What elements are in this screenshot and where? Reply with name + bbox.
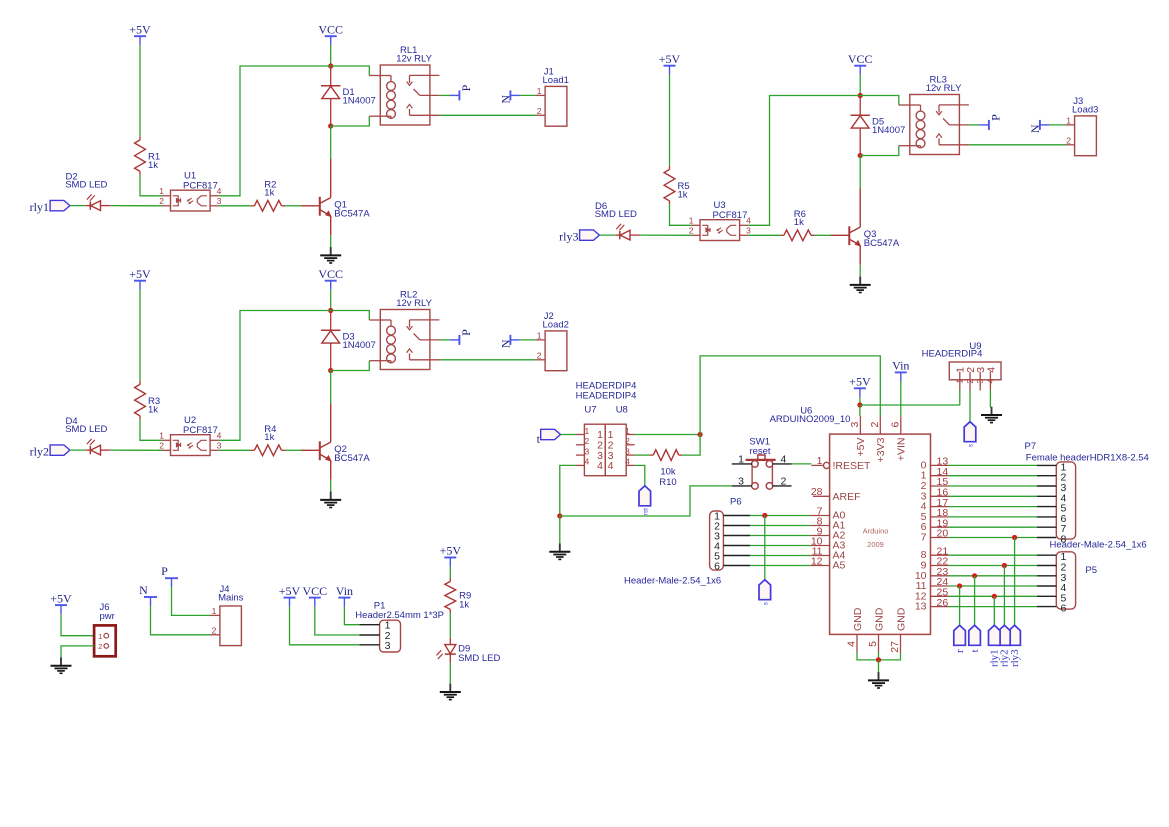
ground (51, 657, 72, 673)
svg-text:1: 1 (212, 606, 217, 616)
svg-text:2: 2 (537, 350, 542, 360)
wire (290, 607, 360, 645)
svg-text:4: 4 (846, 641, 858, 647)
junction (858, 93, 863, 98)
power +5V (279, 584, 301, 607)
svg-text:1N4007: 1N4007 (343, 340, 376, 351)
wire (219, 66, 331, 196)
svg-text:1: 1 (625, 426, 630, 436)
svg-text:2: 2 (212, 625, 217, 635)
label R1 1k (148, 152, 160, 172)
power VCC (318, 22, 343, 45)
ground (320, 492, 341, 508)
svg-text:1: 1 (537, 331, 542, 341)
transistor Q3 (831, 189, 861, 265)
svg-text:!RESET: !RESET (833, 460, 872, 472)
junction (328, 368, 333, 373)
wire (640, 234, 692, 236)
svg-text:N: N (499, 95, 513, 104)
label RL2 12v RLY (396, 290, 432, 309)
junction (957, 583, 962, 588)
net flag rly1 (30, 200, 70, 214)
wire (860, 146, 899, 156)
junction (328, 63, 333, 68)
svg-text:1k: 1k (148, 160, 158, 171)
wire (1003, 566, 1005, 626)
net flag rly3 (1009, 625, 1021, 667)
svg-text:1: 1 (159, 431, 164, 441)
wire (330, 45, 332, 66)
diode D1 (321, 66, 340, 126)
svg-text:4: 4 (781, 454, 787, 466)
svg-text:2: 2 (625, 436, 630, 446)
svg-text:+5V: +5V (855, 438, 867, 457)
power +5V (849, 375, 871, 398)
svg-text:R10: R10 (659, 477, 676, 488)
IC U6 ARDUINO2009_10 (810, 416, 948, 653)
svg-text:1: 1 (98, 632, 102, 641)
wire (750, 525, 810, 527)
resistor R1 (135, 136, 146, 175)
junction (857, 402, 862, 407)
wire (750, 545, 810, 547)
wire (878, 660, 880, 673)
svg-text:4: 4 (608, 460, 614, 472)
junction (557, 513, 562, 518)
label R5 1k (678, 181, 690, 201)
svg-text:2: 2 (689, 226, 694, 236)
wire (969, 144, 1066, 146)
junction (762, 513, 767, 518)
svg-text:Vin: Vin (336, 584, 353, 598)
svg-text:BC547A: BC547A (334, 208, 370, 219)
wire (949, 475, 1038, 477)
net flag N (1028, 120, 1049, 133)
label P7 Female headerHDR1X8-2.54 (1025, 441, 1149, 464)
wire (949, 516, 1038, 518)
junction (992, 594, 997, 599)
label RL3 12v RLY (926, 75, 962, 94)
resistor R5 (664, 166, 675, 205)
junction (328, 308, 333, 313)
svg-text:Load3: Load3 (1072, 105, 1098, 116)
optocoupler U1 (159, 186, 221, 211)
wire (859, 265, 861, 278)
junction (1002, 563, 1007, 568)
resistor R2 (251, 200, 285, 211)
net flag P (450, 329, 473, 345)
wire (560, 465, 576, 516)
label P1 Header2.54mm 1*3P (355, 601, 444, 621)
label R9 1k (459, 590, 471, 610)
svg-text:1: 1 (537, 86, 542, 96)
ground (549, 544, 570, 560)
svg-text:Arduino: Arduino (863, 527, 889, 536)
wire (330, 371, 332, 404)
svg-text:GND: GND (873, 607, 885, 631)
wire (449, 567, 451, 579)
wire (439, 94, 450, 96)
svg-text:3: 3 (849, 422, 861, 428)
wire (949, 506, 1038, 508)
svg-text:+3V3: +3V3 (875, 437, 887, 462)
diode D3 (321, 311, 340, 371)
label D6 SMD LED (595, 201, 637, 220)
wire (331, 311, 370, 321)
label Q1 BC547A (334, 200, 370, 220)
wire (860, 404, 960, 406)
svg-text:2: 2 (781, 476, 787, 488)
label RL1 12v RLY (396, 45, 432, 64)
svg-text:P: P (459, 329, 473, 336)
label U7 U8 HEADERDIP4 (576, 381, 637, 416)
connector J4 (210, 606, 241, 646)
wire (561, 434, 576, 436)
svg-text:Vin: Vin (892, 359, 909, 373)
header U7 (576, 424, 605, 476)
svg-text:reset: reset (749, 446, 770, 457)
svg-text:+5V: +5V (659, 52, 681, 66)
wire (330, 290, 332, 311)
svg-text:3: 3 (217, 441, 222, 451)
ground (981, 407, 1002, 423)
label R2 1k (264, 180, 276, 199)
net flag rly3 (559, 230, 599, 244)
svg-text:3: 3 (217, 196, 222, 206)
wire (70, 205, 86, 207)
svg-text:12v RLY: 12v RLY (396, 298, 432, 309)
wire (748, 96, 860, 226)
power +5V (659, 52, 681, 75)
svg-text:Load2: Load2 (543, 320, 569, 331)
net flag N (499, 335, 520, 348)
resistor R6 (780, 230, 814, 241)
svg-text:4: 4 (985, 367, 997, 373)
wire (949, 585, 1038, 587)
wire (949, 537, 1038, 539)
label D1 1N4007 (343, 87, 376, 107)
svg-text:3: 3 (385, 640, 391, 652)
wire (285, 449, 301, 451)
net flag P (161, 564, 178, 587)
svg-text:HEADERDIP4: HEADERDIP4 (922, 348, 983, 359)
wire (331, 66, 370, 76)
wire (815, 234, 831, 236)
svg-text:SMD LED: SMD LED (65, 180, 107, 191)
connector P1 (359, 620, 400, 652)
wire (949, 495, 1038, 497)
ground (868, 672, 889, 688)
svg-text:AREF: AREF (833, 491, 861, 503)
wire (449, 613, 451, 638)
resistor R10 (650, 450, 683, 461)
wire (139, 45, 141, 136)
net flag t (537, 429, 561, 446)
wire (949, 595, 1038, 597)
power VCC (848, 52, 873, 75)
svg-text:rly1: rly1 (30, 200, 49, 214)
svg-text:SMD LED: SMD LED (65, 424, 107, 435)
label J4 Mains (218, 584, 244, 604)
wire (969, 124, 980, 126)
svg-text:1: 1 (1066, 116, 1071, 126)
wire (949, 565, 1038, 567)
svg-text:1N4007: 1N4007 (872, 125, 905, 136)
svg-text:SMD LED: SMD LED (595, 209, 637, 220)
LED D4 (86, 439, 111, 455)
label Q3 BC547A (864, 229, 900, 249)
wire (439, 359, 536, 361)
power VCC (302, 584, 327, 607)
svg-text:GND: GND (895, 607, 907, 631)
junction (876, 657, 881, 662)
svg-text:P7: P7 (1025, 441, 1037, 452)
label J2 Load2 (543, 311, 569, 331)
svg-text:2009: 2009 (867, 540, 884, 549)
label D5 1N4007 (872, 117, 905, 137)
svg-text:4: 4 (625, 457, 630, 467)
svg-text:2: 2 (965, 379, 975, 384)
wire (344, 607, 359, 625)
connector J1 (536, 86, 567, 126)
svg-text:26: 26 (937, 597, 949, 609)
svg-text:5: 5 (867, 641, 879, 647)
label SW1 reset (749, 436, 771, 457)
svg-text:12: 12 (811, 556, 823, 568)
svg-text:2: 2 (585, 436, 590, 446)
wire (151, 606, 211, 635)
svg-text:2: 2 (159, 196, 164, 206)
label D9 SMD LED (458, 644, 500, 664)
svg-text:3: 3 (975, 379, 985, 384)
svg-text:pwr: pwr (100, 611, 115, 622)
svg-text:rly2: rly2 (30, 445, 49, 459)
header U8 (605, 424, 634, 476)
svg-text:P: P (161, 564, 168, 578)
wire (520, 339, 536, 341)
svg-text:A5: A5 (833, 559, 846, 571)
svg-text:1k: 1k (264, 432, 274, 443)
label D2 SMD LED (65, 172, 107, 191)
svg-text:BC547A: BC547A (864, 238, 900, 249)
svg-text:6: 6 (714, 561, 720, 573)
wire (110, 449, 162, 451)
svg-text:GND: GND (852, 607, 864, 631)
wire (219, 311, 331, 441)
svg-text:4: 4 (985, 379, 995, 384)
wire (682, 435, 700, 456)
ground (440, 684, 461, 700)
svg-text:Header-Male-2.54_1x6: Header-Male-2.54_1x6 (1050, 540, 1147, 551)
junction (698, 432, 703, 437)
svg-text:4: 4 (585, 457, 590, 467)
wire (61, 614, 94, 636)
wire (560, 486, 732, 516)
svg-text:1k: 1k (459, 600, 469, 611)
wire (70, 449, 86, 451)
wire (635, 454, 650, 456)
relay RL2 (369, 310, 439, 370)
svg-text:3: 3 (625, 446, 630, 456)
wire (330, 235, 332, 248)
wire (878, 653, 880, 660)
svg-text:rst: rst (642, 508, 649, 515)
wire (140, 175, 162, 196)
svg-text:2: 2 (537, 106, 542, 116)
svg-text:ARDUINO2009_10: ARDUINO2009_10 (770, 414, 851, 425)
resistor R4 (251, 445, 285, 456)
svg-text:PCF817: PCF817 (183, 425, 218, 436)
svg-text:13: 13 (915, 601, 927, 613)
svg-text:+5V: +5V (129, 22, 151, 36)
wire (949, 464, 1038, 466)
wire (764, 516, 766, 580)
wire (860, 96, 899, 106)
LED D2 (86, 194, 111, 210)
wire (449, 663, 451, 684)
LED D9 (436, 638, 455, 664)
wire (900, 381, 902, 416)
svg-text:PCF817: PCF817 (183, 181, 218, 192)
wire (792, 463, 812, 465)
net flag rly2 (999, 625, 1011, 667)
svg-text:N: N (1028, 124, 1042, 133)
wire (139, 290, 141, 381)
power +5V (129, 22, 151, 45)
wire (969, 391, 971, 422)
svg-text:+5V: +5V (129, 267, 151, 281)
net flag P (979, 114, 1002, 130)
svg-text:VCC: VCC (302, 584, 327, 598)
wire (949, 554, 1038, 556)
wire (750, 555, 810, 557)
wire (219, 449, 251, 451)
net flag N (139, 583, 157, 606)
wire (859, 397, 861, 405)
label R6 1k (794, 209, 806, 228)
svg-text:1: 1 (585, 426, 590, 436)
wire (559, 516, 561, 544)
svg-text:+VIN: +VIN (896, 438, 908, 462)
net flag r (954, 625, 966, 653)
wire (750, 515, 810, 517)
wire (700, 356, 880, 435)
svg-text:7: 7 (921, 532, 927, 544)
svg-text:1: 1 (817, 455, 823, 467)
wire (857, 653, 901, 660)
power +5V (440, 544, 462, 567)
wire (859, 75, 861, 96)
diode D5 (851, 96, 870, 156)
transistor Q1 (301, 159, 331, 235)
wire (859, 156, 861, 189)
relay RL1 (369, 65, 439, 125)
svg-text:Mains: Mains (218, 593, 244, 604)
label J6 pwr (100, 602, 115, 622)
resistor R9 (445, 578, 456, 613)
label U1 PCF817 (183, 171, 218, 192)
label P5 Header-Male-2.54_1x6 (1050, 540, 1147, 576)
wire (949, 526, 1038, 528)
svg-text:27: 27 (889, 641, 901, 653)
svg-text:VCC: VCC (318, 267, 343, 281)
label D4 SMD LED (65, 416, 107, 435)
junction (858, 153, 863, 158)
svg-text:rly3: rly3 (559, 230, 578, 244)
svg-text:1: 1 (689, 216, 694, 226)
wire (110, 205, 162, 207)
wire (989, 391, 991, 408)
svg-text:12v RLY: 12v RLY (396, 53, 432, 64)
svg-text:HEADERDIP4: HEADERDIP4 (576, 391, 637, 402)
wire (669, 75, 671, 166)
svg-text:1: 1 (159, 186, 164, 196)
svg-text:U7: U7 (584, 405, 596, 416)
svg-text:P: P (988, 114, 1002, 121)
power VCC (318, 267, 343, 290)
power Vin (336, 584, 353, 607)
wire (993, 596, 995, 625)
svg-text:BC547A: BC547A (334, 453, 370, 464)
svg-text:PCF817: PCF817 (713, 210, 748, 221)
svg-text:12v RLY: 12v RLY (926, 83, 962, 94)
wire (1049, 124, 1065, 126)
wire (949, 606, 1038, 608)
wire (974, 576, 976, 626)
svg-text:2: 2 (98, 642, 102, 651)
wire (1014, 538, 1016, 626)
wire (219, 205, 251, 207)
label R10 10k (659, 467, 676, 489)
wire (61, 646, 94, 658)
wire (439, 114, 536, 116)
svg-text:4: 4 (597, 460, 603, 472)
switch SW1 (732, 454, 792, 490)
svg-text:P6: P6 (730, 497, 742, 508)
power Vin (892, 359, 909, 382)
svg-text:3: 3 (746, 226, 751, 236)
optocoupler U2 (159, 431, 221, 456)
svg-text:Header2.54mm 1*3P: Header2.54mm 1*3P (355, 610, 444, 621)
svg-text:Header-Male-2.54_1x6: Header-Male-2.54_1x6 (624, 576, 721, 587)
svg-text:+5V: +5V (50, 591, 72, 605)
label J1 Load1 (543, 67, 569, 87)
header U9 (949, 362, 1001, 391)
net flag t (969, 625, 981, 652)
svg-text:r: r (954, 649, 966, 653)
svg-text:N: N (139, 583, 148, 597)
connector P5 (1037, 551, 1076, 614)
optocoupler U3 (689, 216, 751, 241)
junction (1012, 535, 1017, 540)
wire (859, 405, 861, 416)
wire (748, 234, 780, 236)
svg-text:+5V: +5V (849, 375, 871, 389)
svg-text:20: 20 (937, 528, 949, 540)
wire (330, 126, 332, 159)
svg-text:3: 3 (738, 476, 744, 488)
svg-text:Female headerHDR1X8-2.54: Female headerHDR1X8-2.54 (1026, 453, 1149, 464)
wire (330, 480, 332, 493)
svg-text:N: N (499, 339, 513, 348)
svg-text:2: 2 (869, 422, 881, 428)
label Q2 BC547A (334, 444, 370, 464)
label U9 HEADERDIP4 (922, 341, 983, 360)
svg-text:1: 1 (955, 379, 965, 384)
svg-text:rly1: rly1 (989, 649, 1001, 667)
ground (850, 277, 871, 293)
wire (959, 586, 961, 625)
